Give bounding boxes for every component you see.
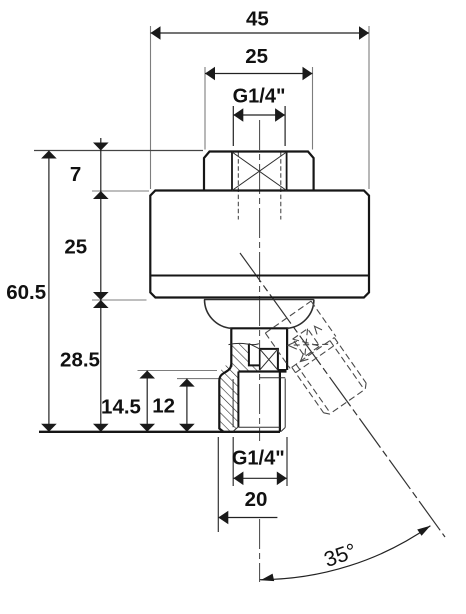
svg-text:45: 45 [246, 7, 269, 30]
svg-text:20: 20 [245, 488, 268, 511]
svg-text:G1/4": G1/4" [232, 448, 285, 470]
svg-text:28.5: 28.5 [60, 348, 100, 371]
svg-text:25: 25 [64, 236, 87, 259]
svg-text:12: 12 [152, 395, 175, 418]
svg-text:25: 25 [245, 45, 268, 68]
svg-text:14.5: 14.5 [101, 396, 141, 419]
svg-text:7: 7 [70, 163, 81, 186]
svg-text:G1/4": G1/4" [233, 86, 286, 108]
svg-text:60.5: 60.5 [6, 281, 46, 304]
